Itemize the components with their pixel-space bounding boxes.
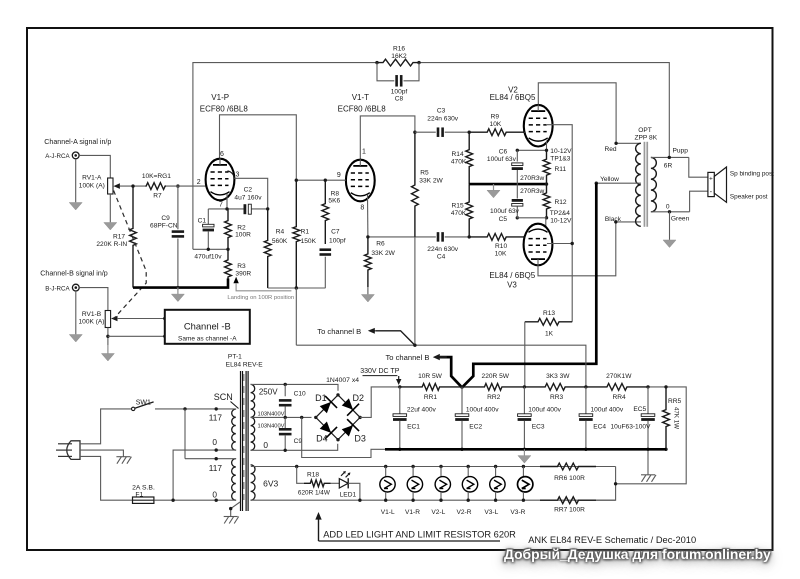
- wire HV 250V to bridge top: [251, 384, 338, 390]
- wire lamp V3-L bottom lead: [495, 492, 497, 500]
- wire C2 to R4 node: [252, 208, 268, 210]
- wire V1-P anode pin6 up and over to R1 line: [220, 115, 297, 180]
- wire link to lower 117 tap: [185, 458, 236, 460]
- svg-text:C8: C8: [395, 96, 404, 103]
- chassis ground under SCN: [224, 517, 239, 524]
- svg-text:2A S.B.: 2A S.B.: [132, 484, 155, 491]
- svg-text:EL84 / 6BQ5: EL84 / 6BQ5: [490, 93, 536, 102]
- svg-text:RV1-A: RV1-A: [82, 175, 102, 182]
- node R6 top: [366, 235, 369, 238]
- svg-text:Same as channel -A: Same as channel -A: [178, 335, 237, 342]
- svg-text:Pupp: Pupp: [672, 147, 688, 154]
- OPT secondary winding: [651, 157, 656, 211]
- svg-text:RR1: RR1: [424, 394, 438, 401]
- svg-text:270K1W: 270K1W: [606, 373, 632, 380]
- node CT down: [300, 416, 303, 419]
- svg-text:0: 0: [666, 203, 670, 210]
- mains plug symbol: [56, 441, 80, 460]
- resistor R3 390R: [225, 249, 232, 287]
- node EC1 bottom: [398, 448, 401, 451]
- diode D1: [317, 396, 337, 416]
- svg-text:C5: C5: [499, 216, 508, 223]
- ground under RV1-A: [104, 222, 117, 230]
- wire lamp V2-L bottom lead: [440, 492, 442, 500]
- svg-text:16K2: 16K2: [391, 53, 407, 60]
- svg-text:Black: Black: [605, 216, 622, 223]
- wire mains neutral to fuse: [80, 456, 132, 500]
- landing annotation arrow: [233, 277, 238, 283]
- wire primary parallel link down: [184, 409, 186, 459]
- wire V2 cathode node link: [517, 149, 546, 151]
- svg-text:LED1: LED1: [340, 492, 357, 499]
- V1-P grid exit curve to pin 3: [228, 171, 235, 179]
- wire R4-R1-C7 bottom link: [268, 287, 326, 289]
- capacitor C4 224n 630v: [437, 232, 444, 242]
- svg-text:R16: R16: [393, 46, 405, 53]
- wire cathode node to C2: [208, 208, 244, 210]
- capacitor C9 103N400V psu: [279, 428, 292, 435]
- node V3 anode corner: [614, 220, 617, 223]
- wire lamp V2-R bottom lead: [467, 492, 469, 500]
- ground under RV1-B: [101, 345, 114, 361]
- capacitor C3 224n 630v: [437, 127, 444, 137]
- wire C1 top lead: [207, 209, 209, 225]
- channel B block box: [165, 310, 250, 344]
- svg-text:100K (A): 100K (A): [78, 319, 104, 326]
- svg-text:C10: C10: [294, 390, 306, 397]
- node C9A bottom on bus: [176, 286, 179, 289]
- PT-1 HV secondary 250V winding: [251, 384, 255, 450]
- resistor RR1 10R 5W: [400, 384, 462, 391]
- node R1 bottom: [295, 286, 298, 289]
- potentiometer RV1-A 100K: [108, 178, 113, 194]
- switch SW1: [132, 402, 154, 411]
- OPT primary winding: [636, 143, 641, 226]
- wire Green to ground: [669, 212, 671, 240]
- wire EC1 bottom lead: [399, 421, 401, 450]
- resistor RR5 47K 1W: [663, 387, 670, 449]
- svg-text:R11: R11: [555, 166, 567, 173]
- heater lamp V1-L: [380, 477, 395, 492]
- resistor R8 5K6: [322, 180, 329, 244]
- wire top feedback rail from secondary Pupp to left corner: [419, 63, 669, 157]
- diode D3: [339, 419, 359, 439]
- wire C9A lower lead: [177, 239, 179, 288]
- svg-text:0: 0: [263, 440, 268, 450]
- svg-text:R13: R13: [543, 310, 555, 317]
- node RR5 bottom: [664, 448, 667, 451]
- svg-text:7: 7: [219, 201, 223, 208]
- svg-text:RR4: RR4: [612, 394, 626, 401]
- wire C8 parallel loop right: [404, 63, 420, 81]
- wire C10 bottom lead: [284, 406, 286, 417]
- svg-text:3: 3: [236, 171, 240, 178]
- svg-text:ANK EL84 REV-E Schematic / Dec: ANK EL84 REV-E Schematic / Dec-2010: [528, 535, 696, 545]
- svg-text:V1-L: V1-L: [381, 509, 395, 516]
- svg-text:6V3: 6V3: [263, 478, 278, 488]
- PT-1 primary winding lower 117V: [232, 459, 236, 501]
- node heater lamp V1-L top: [384, 465, 387, 468]
- wire EC2 top lead: [461, 387, 463, 414]
- resistor R14 470K: [466, 132, 473, 184]
- SCN pointer line: [231, 402, 239, 409]
- node heater lamp V2-L top: [439, 465, 442, 468]
- node heater lamp V3-R top: [522, 465, 525, 468]
- node RR5 top: [664, 385, 667, 388]
- node channel B box wiper: [163, 317, 166, 320]
- thick cathode return line V2/V3: [469, 183, 546, 186]
- diode D2: [339, 396, 359, 416]
- resistor R4 560K: [264, 209, 271, 288]
- svg-text:0: 0: [212, 489, 217, 499]
- ground under jack A: [69, 202, 82, 210]
- svg-text:100uf 400v: 100uf 400v: [591, 406, 624, 413]
- svg-text:6R: 6R: [664, 162, 673, 169]
- node V2 cathode R11: [545, 149, 548, 152]
- node C3 left: [413, 131, 416, 134]
- wire lamp V2-L top lead: [440, 467, 442, 478]
- resistor R10 10K: [469, 234, 524, 241]
- wire RR4 to divider and right end: [616, 387, 687, 484]
- svg-text:8: 8: [360, 205, 364, 212]
- svg-text:R2: R2: [237, 224, 246, 231]
- svg-text:1: 1: [362, 149, 366, 156]
- svg-text:SCN: SCN: [214, 392, 233, 402]
- svg-text:100pf: 100pf: [391, 88, 408, 95]
- node heater lamp V2-L bottom: [439, 499, 442, 502]
- wire EC3 top lead: [523, 387, 525, 414]
- svg-text:103N400V: 103N400V: [258, 411, 285, 417]
- note box underline: [319, 540, 501, 542]
- RCA jack B-J-RCA: [72, 284, 79, 291]
- wiper arrow RV1-A: [113, 183, 120, 189]
- svg-text:100uf 400v: 100uf 400v: [466, 406, 499, 413]
- svg-text:10-12V: 10-12V: [550, 148, 572, 155]
- PT-1 core laminations: [240, 371, 249, 511]
- node cathode V1-P: [225, 207, 228, 210]
- svg-text:R4: R4: [276, 229, 285, 236]
- svg-text:R5: R5: [420, 169, 429, 176]
- wire humdinger junction: [596, 467, 616, 501]
- node EC4 bottom: [584, 448, 587, 451]
- capacitor C6 100uf 63v: [512, 163, 523, 170]
- diagonal callout to To channel B upper: [376, 331, 415, 345]
- svg-text:ECF80 /6BL8: ECF80 /6BL8: [338, 104, 387, 113]
- watermark Dobryi Dedushka forum.onliner.by: [504, 546, 800, 562]
- svg-text:470K: 470K: [451, 159, 467, 166]
- svg-text:100R: 100R: [235, 232, 251, 239]
- wire lamp V2-R top lead: [467, 467, 469, 478]
- svg-text:R17: R17: [113, 233, 125, 240]
- wire lamp V1-R top lead: [412, 467, 414, 478]
- node C9A top: [176, 184, 179, 187]
- node lower 0 tap: [215, 499, 218, 502]
- svg-text:EC3: EC3: [532, 423, 545, 430]
- svg-text:10uF63-100V: 10uF63-100V: [611, 423, 652, 430]
- wire C6 bottom lead: [516, 170, 518, 184]
- svg-text:Channel-A signal in/p: Channel-A signal in/p: [44, 138, 111, 146]
- node yellow corner: [595, 182, 598, 185]
- tube V3 EL84: [524, 224, 553, 266]
- arrow ADD LED note: [315, 512, 321, 520]
- wire OPT secondary top to Pupp: [651, 156, 689, 158]
- svg-text:TP1&3: TP1&3: [550, 156, 570, 163]
- 330V DC TP underline: [363, 375, 398, 377]
- svg-text:RR6 100R: RR6 100R: [554, 475, 585, 482]
- wire R10 to V3 grid: [523, 236, 525, 238]
- wire EC5 bottom lead: [647, 421, 649, 450]
- thick PSU ground rail: [385, 448, 666, 451]
- node EC3 bottom: [523, 448, 526, 451]
- wire OPT secondary bottom to Green: [651, 211, 690, 213]
- node B+ TP: [398, 385, 401, 388]
- svg-text:Channel -B: Channel -B: [184, 321, 231, 332]
- chassis ground mains earth: [116, 457, 131, 464]
- wire bridge plus output to B+ rail: [360, 387, 400, 418]
- svg-text:D2: D2: [353, 393, 365, 403]
- resistor R7 10K: [145, 183, 166, 190]
- wire EC2 bottom lead: [461, 421, 463, 450]
- wire V3 cathode lead: [545, 218, 547, 230]
- node CT C10: [284, 416, 287, 419]
- svg-text:C2: C2: [244, 187, 253, 194]
- wire SW1 to primary taps: [155, 408, 236, 410]
- svg-text:224n 630v: 224n 630v: [427, 116, 459, 123]
- wire HV 0 to bridge bottom: [251, 444, 338, 451]
- svg-text:33K 2W: 33K 2W: [419, 177, 443, 184]
- node V junction EC2: [460, 385, 463, 388]
- node OPT red: [614, 142, 617, 145]
- svg-text:250V: 250V: [259, 387, 278, 396]
- svg-text:RR7 100R: RR7 100R: [554, 506, 585, 513]
- svg-text:C1: C1: [198, 218, 207, 225]
- wire top feedback rail left of R16 down to V1-P cathode network: [193, 63, 377, 250]
- capacitor C9 68PF-CN: [172, 230, 184, 237]
- svg-text:R18: R18: [307, 471, 319, 478]
- resistor R1 150K: [293, 180, 300, 288]
- svg-text:1N4007 x4: 1N4007 x4: [326, 377, 359, 384]
- svg-text:9: 9: [337, 172, 341, 179]
- bridge diamond wires: [316, 395, 360, 440]
- ground on cathode return line: [487, 184, 500, 198]
- note box arrow ADD LED: [318, 519, 320, 541]
- LED LED1: [339, 471, 350, 489]
- svg-text:V3-L: V3-L: [484, 509, 498, 516]
- svg-text:V2-R: V2-R: [456, 509, 471, 516]
- RCA jack A-J-RCA: [72, 152, 79, 159]
- wire V3 screen to screen rail: [547, 243, 572, 245]
- wire jack B ground stem: [75, 291, 77, 334]
- wire R1 bottom to To-channel-B line: [295, 288, 297, 345]
- svg-text:Landing on 100R position: Landing on 100R position: [227, 295, 294, 301]
- wire lamp V1-L top lead: [385, 467, 387, 478]
- wire OPT yellow center tap: [596, 182, 641, 184]
- node EC2 bottom: [460, 448, 463, 451]
- svg-text:6: 6: [220, 151, 224, 158]
- svg-text:RR2: RR2: [487, 394, 501, 401]
- dashed gang line between RV1-A and RV1-B: [113, 191, 146, 320]
- svg-text:ECF80 /6BL8: ECF80 /6BL8: [200, 104, 249, 113]
- wire C6 top lead: [516, 150, 518, 161]
- wire V2 anode to OPT Red: [538, 83, 641, 144]
- node heater lamp V1-R top: [411, 465, 414, 468]
- node heater lamp V3-L top: [494, 465, 497, 468]
- wire upper 0 tap to fuse line: [173, 450, 236, 500]
- svg-text:10K: 10K: [495, 250, 507, 257]
- wire C4 to R15 node: [445, 236, 470, 238]
- node pin9 wire at R1 line: [295, 179, 298, 182]
- svg-text:C4: C4: [437, 254, 446, 261]
- svg-text:100K (A): 100K (A): [79, 183, 105, 190]
- wire jack B to pot RV1-B: [79, 288, 108, 311]
- wire C5 bottom lead: [516, 206, 518, 218]
- wire EC4 top lead: [585, 387, 587, 414]
- svg-text:470uf10v: 470uf10v: [194, 254, 222, 261]
- svg-text:100uf 63v: 100uf 63v: [487, 156, 517, 163]
- wire EC4 bottom lead: [585, 421, 587, 450]
- node bridge bottom: [336, 438, 339, 441]
- svg-text:10K: 10K: [490, 121, 502, 128]
- svg-text:117: 117: [209, 413, 223, 423]
- resistor R5 33K 2W: [412, 132, 419, 237]
- SCN bottom lead: [231, 502, 240, 516]
- svg-text:R10: R10: [495, 243, 507, 250]
- wire lamp V3-L top lead: [495, 467, 497, 478]
- svg-text:PT-1: PT-1: [228, 353, 242, 360]
- capacitor C7 100pf: [320, 248, 332, 255]
- OPT core laminations: [644, 142, 649, 227]
- wire V1-T anode pin1 up to C3 node: [360, 116, 415, 160]
- svg-text:33K 2W: 33K 2W: [371, 250, 395, 257]
- arrow To channel B lower: [433, 354, 447, 360]
- svg-text:D1: D1: [315, 393, 327, 403]
- wire R5 bottom to To-channel-B line: [414, 237, 416, 345]
- svg-text:B-J-RCA: B-J-RCA: [45, 285, 70, 292]
- svg-text:5K6: 5K6: [328, 198, 340, 205]
- svg-text:3K3 3W: 3K3 3W: [546, 373, 570, 380]
- svg-text:Channel-B signal in/p: Channel-B signal in/p: [40, 270, 107, 278]
- svg-text:EL84 / 6BQ5: EL84 / 6BQ5: [489, 271, 535, 280]
- wire C10 top lead: [284, 384, 286, 396]
- svg-text:Yellow: Yellow: [600, 176, 619, 183]
- node V3 screen: [571, 242, 574, 245]
- svg-text:R15: R15: [452, 203, 464, 210]
- node SW1 output: [183, 407, 186, 410]
- node heater lamp V2-R top: [467, 465, 470, 468]
- node R12 bottom: [545, 216, 548, 219]
- wire R13 left down to B+ rail: [524, 322, 526, 387]
- svg-text:RR5: RR5: [668, 398, 682, 405]
- capacitor EC3: [518, 414, 532, 421]
- svg-text:V1-R: V1-R: [405, 509, 420, 516]
- wire R9 to V2 grid: [523, 131, 526, 133]
- svg-text:390R: 390R: [235, 270, 251, 277]
- node heater lamp V1-R bottom: [411, 499, 414, 502]
- potentiometer RV1-B 100K: [105, 311, 110, 328]
- resistor R6 33K 2W: [365, 237, 372, 287]
- svg-text:C6: C6: [499, 149, 508, 156]
- wire C3 to R9: [445, 131, 470, 133]
- svg-text:2: 2: [197, 179, 201, 186]
- resistor RR2 220R 5W: [462, 384, 524, 391]
- capacitor EC1: [393, 414, 407, 421]
- node Pupp: [668, 156, 671, 159]
- svg-text:R12: R12: [555, 199, 567, 206]
- capacitor EC4: [579, 414, 593, 421]
- svg-text:EC4: EC4: [593, 423, 606, 430]
- wire C3 line: [415, 131, 436, 133]
- resistor R13 1K: [525, 318, 572, 325]
- tube V2 EL84: [524, 104, 553, 146]
- node LED1 return: [358, 499, 361, 502]
- node lower 117 tap: [215, 457, 218, 460]
- node upper 0 tap: [215, 448, 218, 451]
- svg-text:10R 5W: 10R 5W: [418, 373, 443, 380]
- svg-text:R6: R6: [376, 241, 385, 248]
- resistor RR3 3K3 3W: [524, 384, 586, 391]
- svg-text:270R3w: 270R3w: [520, 188, 544, 195]
- resistor R11 270R 3w: [543, 150, 550, 184]
- node R8 top: [324, 179, 327, 182]
- wire CT to psu ground jog: [302, 417, 385, 457]
- svg-text:OPT: OPT: [638, 127, 652, 134]
- resistor R15 470K: [466, 184, 473, 237]
- heater lamp V3-R: [518, 477, 533, 492]
- svg-text:150K: 150K: [301, 238, 317, 245]
- node RV1-B bottom: [106, 335, 109, 338]
- wire EC5 to chassis: [647, 449, 649, 474]
- svg-text:220R 5W: 220R 5W: [482, 373, 510, 380]
- svg-text:R14: R14: [452, 151, 464, 158]
- resistor R12 270R 3w: [543, 184, 550, 218]
- chassis ground under EC5: [641, 475, 656, 482]
- wire V2 screen to screen rail: [547, 125, 572, 322]
- wire 6V3 bottom to heater return: [251, 499, 616, 501]
- capacitor C1 470uf: [203, 224, 214, 231]
- heater lamp V2-L: [435, 477, 450, 492]
- tube V1-T ECF80: [346, 159, 375, 201]
- svg-text:TP2&4: TP2&4: [550, 210, 570, 217]
- PT-1 6V3 heater winding: [251, 465, 255, 500]
- node 250V C10 tap: [284, 383, 287, 386]
- wire V2 cathode lead: [546, 141, 548, 151]
- svg-text:R7: R7: [153, 193, 162, 200]
- speaker symbol: [708, 167, 727, 202]
- svg-text:D4: D4: [316, 434, 328, 444]
- resistor RR4 270K1W: [586, 384, 648, 391]
- wire R6 bottom: [367, 287, 369, 294]
- node humdinger to divider: [614, 482, 617, 485]
- resistor R18 620R: [304, 480, 331, 487]
- wire V1-T cathode pin8 down: [367, 195, 369, 237]
- wire pot RV1-B bottom: [107, 328, 109, 346]
- svg-text:Green: Green: [671, 215, 690, 222]
- node R5 on To-channel-B line: [413, 344, 416, 347]
- svg-text:10K=RG1: 10K=RG1: [142, 173, 171, 180]
- capacitor C10 103N400V: [279, 399, 292, 406]
- svg-text:EL84 REV-E: EL84 REV-E: [226, 362, 264, 369]
- ground under jack B: [69, 334, 82, 342]
- wiper arrow RV1-B: [111, 316, 118, 322]
- node EC5 bottom: [646, 448, 649, 451]
- svg-text:270R3w: 270R3w: [520, 175, 544, 182]
- svg-text:EC5: EC5: [633, 406, 646, 413]
- wire 6V3 top to heater bus: [251, 466, 616, 468]
- wire R18 to LED1: [331, 482, 340, 484]
- node heater lamp V1-L bottom: [384, 499, 387, 502]
- node C2 right / R4 top: [266, 207, 269, 210]
- wire secondary top to speaker plus: [689, 157, 708, 177]
